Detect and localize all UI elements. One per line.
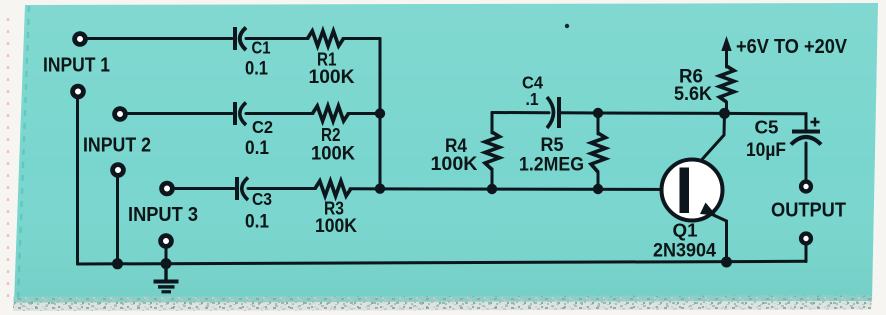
panel left edge shading	[18, 6, 29, 300]
junction node bus-R2	[375, 108, 385, 118]
bottom scan speckle noise	[13, 295, 872, 311]
junction node input3 ground	[161, 258, 172, 269]
capacitor C5 polarized	[791, 118, 821, 145]
svg-text:.1: .1	[526, 89, 539, 109]
input 1 terminal	[75, 34, 86, 45]
transistor Q1	[662, 160, 723, 221]
capacitor C2	[233, 102, 246, 125]
junction node C4-R5 top	[593, 108, 603, 118]
svg-text:100K: 100K	[431, 153, 478, 175]
wire C2 to R2	[246, 112, 313, 115]
svg-text:0.1: 0.1	[245, 58, 268, 80]
capacitor C4	[547, 97, 561, 128]
resistor R6	[720, 66, 735, 102]
resistor R2	[313, 106, 349, 121]
resistor R5	[591, 133, 606, 172]
input 1 return terminal	[73, 86, 84, 97]
junction node bus-R3	[375, 184, 385, 194]
junction node R5 base row	[593, 184, 603, 194]
svg-text:INPUT 2: INPUT 2	[83, 134, 151, 157]
svg-text:Q1: Q1	[673, 220, 698, 241]
wire top rail R5 node to R6 node	[598, 112, 725, 115]
svg-text:C1: C1	[252, 38, 271, 58]
capacitor C1	[233, 27, 246, 50]
svg-text:+6V TO +20V: +6V TO +20V	[736, 35, 847, 58]
capacitor C3	[235, 177, 248, 200]
wire R6 bottom lead	[725, 102, 728, 113]
svg-text:OUTPUT: OUTPUT	[771, 200, 846, 222]
input 3 terminal	[162, 183, 173, 194]
wire input3 to C3	[175, 187, 234, 190]
wire C3 to R3	[248, 187, 316, 190]
svg-text:100K: 100K	[309, 66, 355, 88]
input 3 return terminal	[161, 236, 172, 247]
resistor R1	[308, 31, 344, 46]
wire input2 ground drop	[116, 178, 119, 264]
wire C4 to R5 node	[561, 111, 598, 114]
wire input2 to C2	[128, 112, 232, 115]
wire C5 to output terminal	[805, 143, 808, 179]
svg-text:100K: 100K	[315, 215, 357, 237]
svg-text:10µF: 10µF	[746, 139, 786, 161]
svg-text:1.2MEG: 1.2MEG	[519, 154, 584, 176]
svg-text:2N3904: 2N3904	[653, 240, 716, 262]
junction node input2 ground	[112, 258, 123, 269]
svg-text:INPUT 1: INPUT 1	[43, 54, 110, 77]
wire R3 along base row to Q1 base bar	[350, 187, 680, 191]
wire V+ arrow lead	[725, 49, 728, 67]
resistor R3	[315, 181, 351, 196]
svg-text:C2: C2	[252, 117, 273, 137]
wire R5 bottom lead	[597, 172, 600, 189]
wire R2 to bus node A	[348, 112, 380, 115]
wire R1 to bus node A	[343, 37, 380, 40]
input 2 return terminal	[113, 165, 124, 176]
wire Q1 collector	[688, 113, 725, 175]
ground symbol	[154, 264, 179, 294]
bottom scan speckle noise second layer	[13, 296, 872, 312]
wire R5 top lead	[597, 113, 600, 134]
wire input1 ground drop	[76, 99, 79, 264]
left margin pink perforation dots	[7, 18, 9, 298]
svg-text:100K: 100K	[311, 143, 355, 165]
output lower terminal	[801, 234, 811, 244]
wire top rail R4 to C4	[492, 111, 549, 114]
junction node emitter ground	[721, 257, 732, 268]
stray ink speck	[565, 24, 569, 28]
input 2 terminal	[115, 109, 126, 120]
junction node R4 base row	[487, 184, 497, 194]
wire R4 bottom lead	[491, 169, 494, 189]
svg-text:5.6K: 5.6K	[674, 83, 712, 105]
resistor R4	[485, 132, 500, 170]
junction node R6-collector	[719, 108, 730, 119]
wire output lower terminal to ground bus	[805, 246, 808, 262]
wire summing bus vertical	[379, 39, 382, 189]
svg-text:INPUT 3: INPUT 3	[128, 203, 198, 226]
svg-text:0.1: 0.1	[245, 137, 269, 159]
svg-text:C3: C3	[252, 189, 272, 209]
wire top rail R6 node to C5 corner	[725, 113, 807, 130]
wire ground bus bottom	[78, 261, 807, 264]
bottom scan speckle band upper	[13, 295, 872, 305]
svg-text:C5: C5	[755, 118, 779, 138]
wire Q1 emitter to ground bus	[688, 204, 727, 263]
wire input1 to C1	[88, 37, 232, 40]
wire R4 top lead	[491, 113, 494, 134]
output upper terminal	[801, 182, 811, 192]
wire C1 to R1	[246, 37, 308, 40]
svg-text:0.1: 0.1	[245, 211, 269, 233]
power supply arrow	[721, 36, 731, 51]
bottom scan speckle band lower	[13, 301, 872, 311]
wire input3 ground drop	[165, 249, 168, 264]
